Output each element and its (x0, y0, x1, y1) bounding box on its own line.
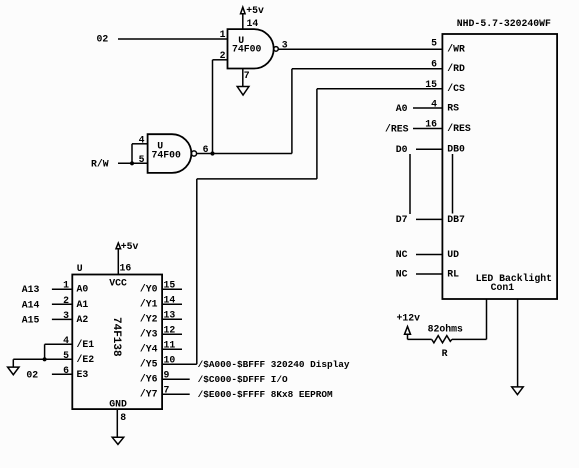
svg-text:NC: NC (396, 269, 408, 280)
svg-text:/Y6: /Y6 (140, 374, 158, 385)
svg-text:/Y1: /Y1 (140, 299, 158, 310)
svg-text:UD: UD (447, 249, 459, 260)
wire D7 to DB7 (416, 218, 442, 220)
wire U1 pin 7 to ground (242, 69, 244, 87)
wire +12v to resistor R (408, 338, 432, 340)
svg-text:/Y7: /Y7 (140, 389, 158, 400)
svg-text:10: 10 (164, 355, 176, 366)
ground (U3 GND) (112, 437, 124, 444)
svg-text:02: 02 (97, 33, 109, 44)
svg-text:14: 14 (164, 295, 176, 306)
wire /RES (413, 128, 442, 130)
svg-text:/WR: /WR (447, 44, 465, 55)
svg-text:13: 13 (164, 310, 176, 321)
wire U3 GND pin 8 (116, 409, 118, 437)
wire D bus ellipsis vertical (409, 154, 411, 214)
svg-text:4: 4 (431, 99, 437, 110)
wire /Y5 to /CS riser (162, 363, 197, 365)
wire /CS horizontal (317, 88, 443, 90)
+5v supply symbol at U3 pin 16 (116, 241, 139, 252)
svg-text:A0: A0 (77, 284, 89, 295)
svg-text:74F00: 74F00 (232, 43, 262, 54)
wire NC to RL (416, 273, 442, 275)
svg-text:/RES: /RES (447, 123, 471, 134)
svg-text:+5v: +5v (246, 5, 264, 16)
wire /CS down to /Y5 (196, 179, 198, 364)
svg-text:+5v: +5v (121, 241, 139, 252)
wire /Y3 (162, 333, 182, 335)
wire down to ground (left) (12, 359, 14, 367)
svg-text:6: 6 (431, 59, 437, 70)
svg-text:/RES: /RES (385, 123, 409, 134)
wire A15 to U3 pin 3 (52, 318, 72, 320)
wire A13 to U3 pin 1 (52, 288, 72, 290)
ground (U1 pin 7) (237, 87, 249, 96)
svg-text:A14: A14 (22, 299, 40, 310)
svg-text:4: 4 (139, 134, 145, 145)
+12v supply symbol (397, 313, 421, 340)
svg-text:E3: E3 (77, 369, 89, 380)
svg-text:/Y5: /Y5 (140, 359, 158, 370)
svg-text:82ohms: 82ohms (428, 324, 463, 335)
svg-text:VCC: VCC (109, 277, 127, 288)
svg-text:12: 12 (164, 325, 176, 336)
svg-text:U: U (77, 263, 83, 274)
wire /RD horizontal (292, 68, 443, 70)
wire LED backlight left pin down (486, 299, 488, 339)
svg-text:3: 3 (63, 310, 69, 321)
wire U2 pin 4 (132, 143, 148, 145)
wire /CS vertical (316, 89, 318, 179)
svg-text:16: 16 (425, 118, 437, 129)
svg-text:02: 02 (26, 369, 38, 380)
svg-text:6: 6 (63, 365, 69, 376)
svg-text:7: 7 (164, 385, 170, 396)
wire tie pins 4-5 vertical (44, 344, 46, 359)
svg-text:/E2: /E2 (77, 354, 95, 365)
svg-text:16: 16 (120, 262, 132, 273)
wire /CS jog horizontal (197, 178, 317, 180)
svg-text:5: 5 (431, 37, 437, 48)
svg-text:7: 7 (244, 70, 250, 81)
svg-text:74F00: 74F00 (152, 150, 182, 161)
svg-text:GND: GND (109, 398, 127, 409)
svg-text:14: 14 (247, 18, 259, 29)
wire /Y0 (162, 288, 182, 290)
svg-text:RL: RL (447, 268, 459, 279)
svg-text:5: 5 (139, 154, 145, 165)
wire DB bus ellipsis vertical (inside display) (452, 154, 454, 214)
svg-text:A2: A2 (77, 314, 89, 325)
svg-text:Con1: Con1 (491, 282, 515, 293)
decoder U3 74F138 (72, 275, 162, 410)
svg-text:NHD-5.7-320240WF: NHD-5.7-320240WF (457, 18, 551, 29)
wire NC to UD (416, 254, 442, 256)
svg-text:5: 5 (63, 350, 69, 361)
svg-text:RS: RS (447, 102, 459, 113)
+5v supply symbol at U1 pin 14 (241, 5, 264, 16)
wire /Y6 (162, 378, 190, 380)
svg-text:D7: D7 (396, 214, 408, 225)
wire U1 pin 2 (213, 59, 228, 61)
svg-text:NC: NC (396, 249, 408, 260)
wire D0 to DB0 (416, 148, 442, 150)
svg-text:/Y2: /Y2 (140, 314, 158, 325)
svg-text:DB0: DB0 (447, 144, 465, 155)
svg-text:/$C000-$DFFF I/O: /$C000-$DFFF I/O (198, 374, 288, 385)
svg-text:11: 11 (164, 340, 176, 351)
svg-text:R: R (442, 348, 448, 359)
svg-text:R/W: R/W (91, 159, 109, 170)
svg-text:/Y3: /Y3 (140, 329, 158, 340)
op-amp U1: NAND gate 74F00 (top) (228, 29, 279, 68)
wire 02 to U1 pin 1 (118, 38, 228, 40)
wire U3 pin 4 /E1 (45, 343, 73, 345)
wire +5v to U1 pin 14 (242, 14, 244, 29)
junction at U2 pin 5 (130, 161, 134, 165)
svg-text:A15: A15 (22, 314, 40, 325)
svg-text:/Y0: /Y0 (140, 284, 158, 295)
svg-text:/$A000-$BFFF 320240 Display: /$A000-$BFFF 320240 Display (198, 359, 350, 370)
svg-text:D0: D0 (396, 144, 408, 155)
wire tie U2 pins 4-5 vertical (131, 144, 133, 164)
svg-text:/CS: /CS (447, 83, 465, 94)
wire U1 pin 2 vertical down to node 6 (212, 60, 214, 154)
svg-text:4: 4 (63, 335, 69, 346)
svg-text:/RD: /RD (447, 63, 465, 74)
svg-text:+12v: +12v (397, 313, 421, 324)
wire U1 output pin 3 to /WR (278, 48, 442, 50)
wire +5v to U3 VCC pin 16 (117, 249, 119, 275)
wire A0 to RS (413, 107, 442, 109)
svg-text:/E1: /E1 (77, 339, 95, 350)
svg-text:15: 15 (425, 79, 437, 90)
svg-text:9: 9 (164, 370, 170, 381)
wire LED backlight right pin down to ground (517, 299, 519, 387)
op-amp U2: NAND gate 74F00 (lower) (148, 134, 197, 173)
wire node 6 up to /RD (291, 69, 293, 154)
svg-text:1: 1 (220, 29, 226, 40)
svg-text:1: 1 (63, 280, 69, 291)
svg-text:74F138: 74F138 (110, 317, 122, 357)
wire R/W to U2 pin 5 (118, 162, 148, 164)
wire U2 output pin 6 (197, 153, 292, 155)
svg-text:A1: A1 (77, 299, 89, 310)
resistor R 82ohms (428, 324, 463, 359)
wire /Y4 (162, 348, 182, 350)
wire /Y7 (162, 393, 190, 395)
wire resistor R to LED pin (452, 338, 487, 340)
wire /Y2 (162, 318, 182, 320)
junction pins 4-5 (43, 357, 47, 361)
node 6 junction (210, 151, 214, 155)
svg-text:8: 8 (120, 412, 126, 423)
svg-text:DB7: DB7 (447, 214, 465, 225)
wire U3 pin 5 /E2 to ground (13, 358, 72, 360)
wire /Y1 (162, 303, 182, 305)
svg-text:2: 2 (63, 295, 69, 306)
svg-text:/$E000-$FFFF 8Kx8 EEPROM: /$E000-$FFFF 8Kx8 EEPROM (198, 389, 333, 400)
wire A14 to U3 pin 2 (52, 303, 72, 305)
ground (LED backlight) (512, 387, 524, 395)
display module Con1 NHD-5.7-320240WF (442, 18, 557, 299)
svg-text:/Y4: /Y4 (140, 344, 158, 355)
svg-text:A0: A0 (396, 103, 408, 114)
ground (U3 enables) (8, 367, 19, 375)
wire 02 to U3 pin 6 E3 (52, 373, 72, 375)
svg-text:15: 15 (164, 280, 176, 291)
svg-text:A13: A13 (22, 284, 40, 295)
